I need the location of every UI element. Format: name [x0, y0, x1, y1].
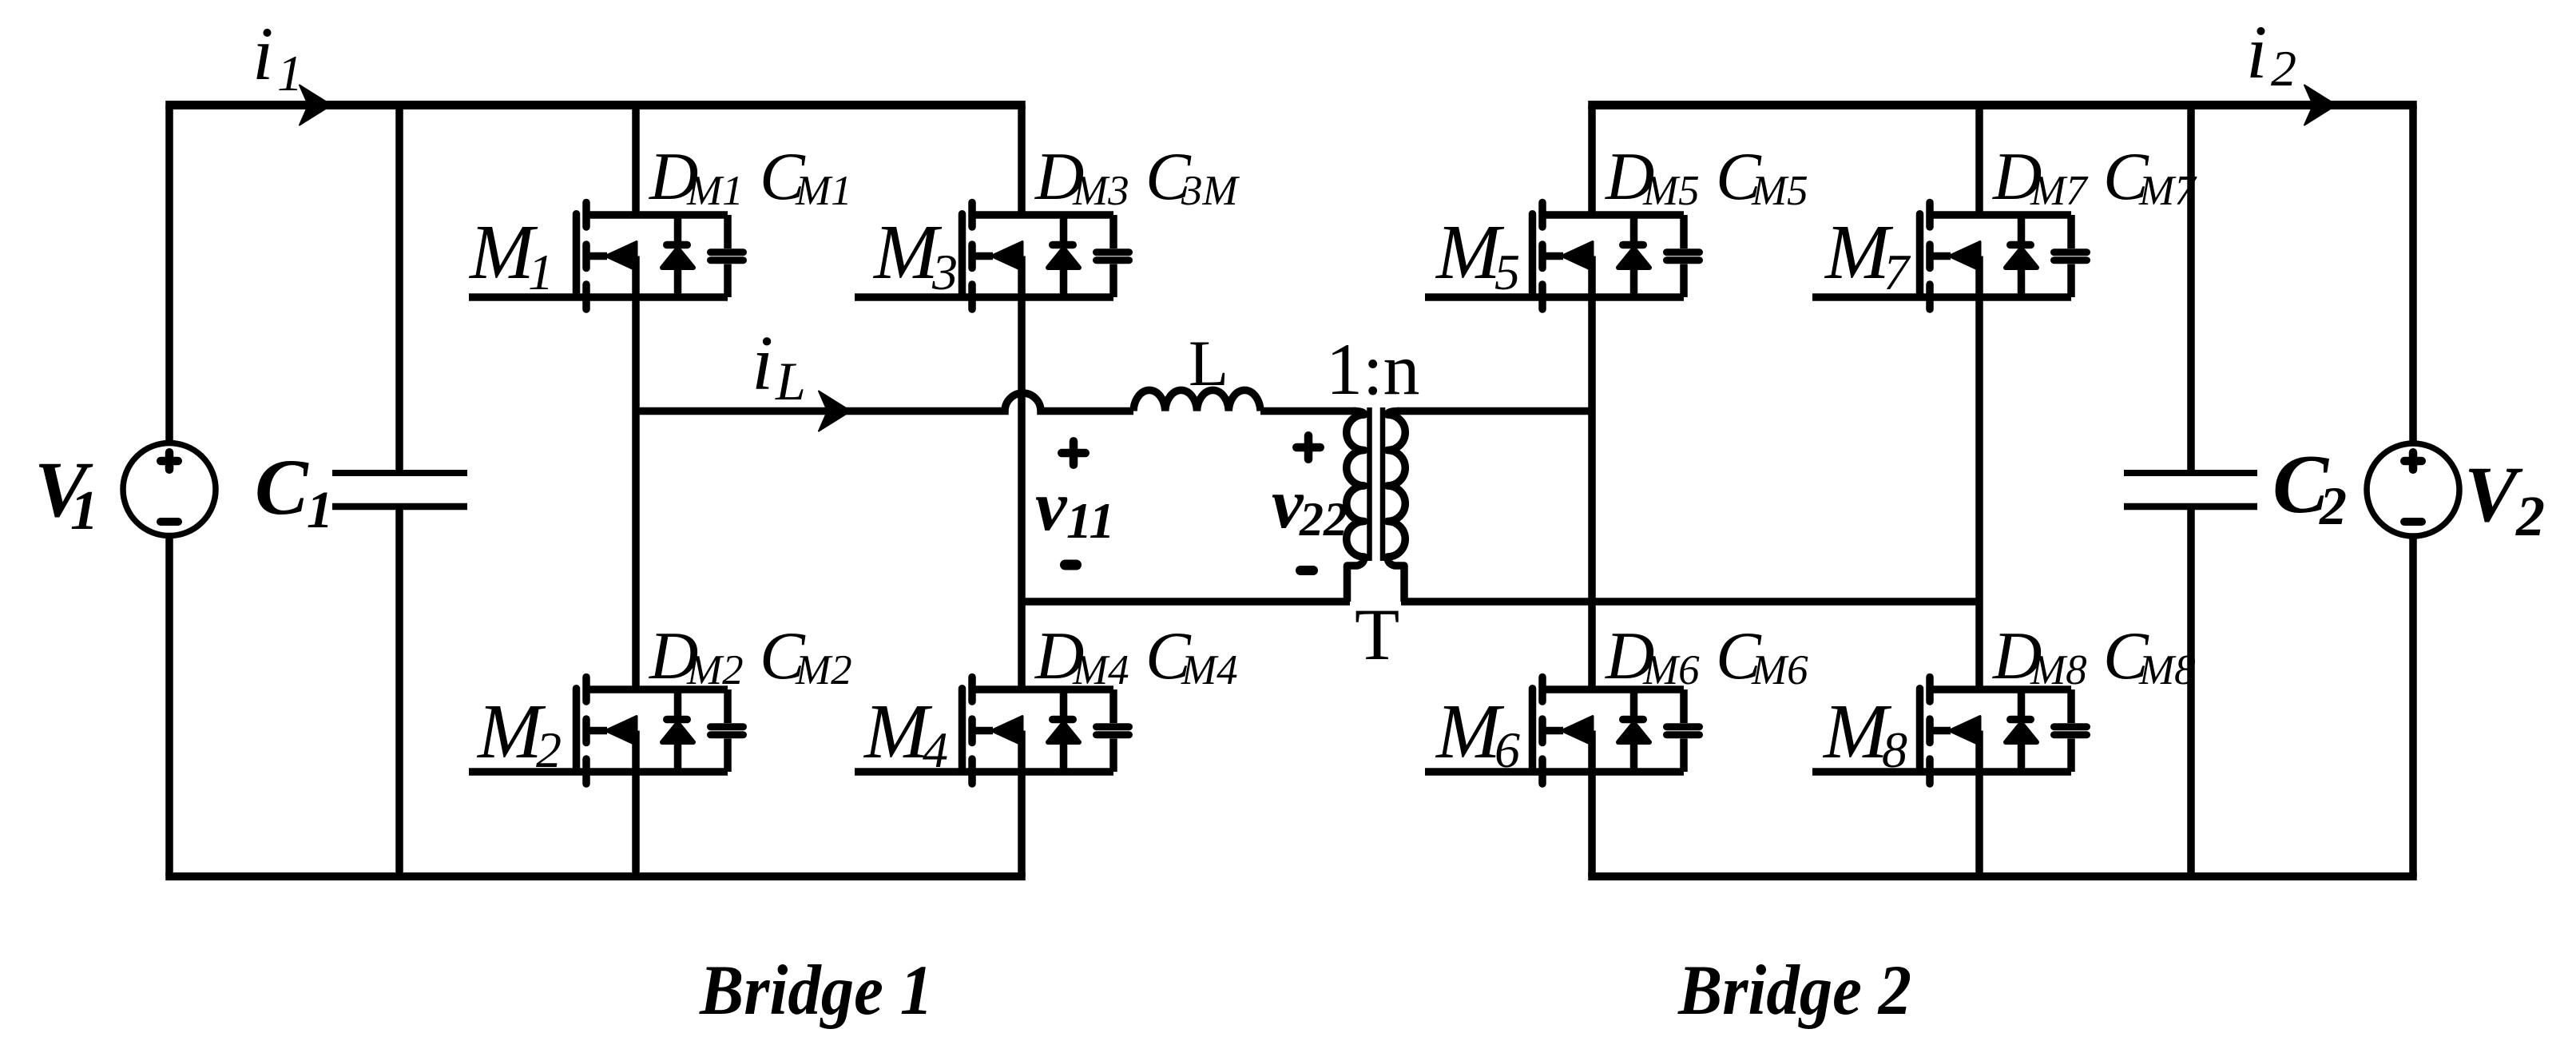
svg-text:M5: M5: [1751, 168, 1808, 214]
svg-text:Bridge 1: Bridge 1: [699, 952, 933, 1030]
svg-text:M2: M2: [686, 647, 744, 693]
svg-text:5: 5: [1494, 244, 1520, 300]
svg-text:L: L: [1189, 327, 1228, 399]
wire: bridge 2 bottom rail: [1588, 872, 2417, 880]
polarity - of v11: [1066, 560, 1077, 570]
current arrow i1: [300, 85, 331, 125]
svg-text:3M: 3M: [1181, 168, 1240, 214]
svg-text:1: 1: [70, 480, 98, 542]
svg-text:8: 8: [1882, 721, 1907, 778]
wire: leg B x=1279: [1018, 105, 1026, 216]
transistor M4: [855, 677, 1113, 785]
voltage source V2: [2409, 105, 2417, 444]
body diode DM1: [662, 215, 693, 297]
body diode DM6: [1618, 689, 1649, 772]
polarity + of v11: [1062, 449, 1086, 458]
transformer T secondary winding: [1387, 411, 1405, 602]
body diode DM5: [1618, 215, 1649, 297]
svg-text:3: 3: [931, 244, 958, 300]
svg-text:11: 11: [1066, 492, 1114, 549]
snubber capacitor C3M: [1097, 215, 1129, 297]
snubber capacitor CM2: [711, 689, 744, 772]
svg-text:2: 2: [536, 721, 562, 778]
wire: leg C x=1993: [1588, 105, 1596, 216]
transistor M2: [469, 677, 728, 785]
svg-text:1: 1: [277, 45, 303, 101]
svg-text:i: i: [252, 11, 273, 96]
svg-text:M6: M6: [1642, 647, 1700, 693]
polarity + of v22: [1296, 443, 1320, 452]
svg-text:M4: M4: [1181, 647, 1238, 693]
current arrow i2: [2304, 85, 2336, 125]
svg-text:M2: M2: [795, 647, 852, 693]
svg-text:T: T: [1355, 594, 1399, 675]
svg-text:i: i: [752, 320, 773, 407]
svg-text:2: 2: [2271, 40, 2296, 97]
inductor L: [1133, 390, 1260, 411]
body diode DM7: [2006, 215, 2037, 297]
wire: secondary bottom to leg D: [1401, 598, 1979, 606]
capacitor C2: [2187, 105, 2195, 474]
svg-text:M3: M3: [1072, 168, 1129, 214]
body diode DM3: [1048, 215, 1079, 297]
svg-text:M8: M8: [2030, 647, 2087, 693]
snubber capacitor CM5: [1667, 215, 1700, 297]
wire: leg D x=2478: [1975, 105, 1983, 216]
snubber capacitor CM6: [1667, 689, 1700, 772]
transformer core: [1367, 407, 1372, 561]
svg-text:M1: M1: [795, 168, 852, 214]
svg-text:L: L: [775, 351, 806, 411]
svg-text:M5: M5: [1642, 168, 1700, 214]
wire: primary bottom return to leg B: [1022, 598, 1350, 606]
svg-text:Bridge 2: Bridge 2: [1677, 952, 1911, 1030]
svg-text:M7: M7: [2030, 168, 2089, 214]
capacitor C1: [395, 105, 403, 471]
body diode DM2: [662, 689, 693, 772]
svg-text:M1: M1: [686, 168, 744, 214]
wire: leg A x=796: [632, 105, 640, 216]
transformer T primary winding: [1347, 411, 1364, 602]
svg-text:4: 4: [923, 721, 948, 778]
polarity - of v22: [1300, 566, 1313, 575]
svg-text:2: 2: [2319, 475, 2347, 536]
transistor M6: [1425, 677, 1684, 785]
snubber capacitor CM4: [1097, 689, 1129, 772]
svg-text:M8: M8: [2138, 647, 2196, 693]
wire: inductor to transformer: [1260, 407, 1356, 415]
voltage source V1: [165, 105, 173, 441]
body diode DM8: [2006, 689, 2037, 772]
body diode DM4: [1048, 689, 1079, 772]
svg-text:M4: M4: [1072, 647, 1129, 693]
wire: bridge 2 top rail: [1588, 101, 2417, 109]
transistor M1: [469, 203, 728, 310]
wire: bridge 1 bottom rail: [165, 872, 1026, 880]
svg-text:7: 7: [1883, 244, 1911, 300]
svg-text:6: 6: [1494, 721, 1520, 778]
snubber capacitor CM7: [2054, 215, 2087, 297]
svg-text:M6: M6: [1751, 647, 1808, 693]
svg-text:v: v: [1035, 467, 1068, 546]
wire: iL with crossover hop: [636, 393, 1133, 411]
transistor M5: [1425, 203, 1684, 310]
wire: secondary top to leg C: [1397, 407, 1592, 415]
svg-text:C: C: [255, 443, 309, 531]
transistor M3: [855, 203, 1113, 310]
wire: bridge 1 top rail: [165, 101, 1026, 109]
current arrow iL: [819, 391, 851, 431]
snubber capacitor CM1: [711, 215, 744, 297]
transistor M7: [1812, 203, 2071, 310]
transistor M8: [1812, 677, 2071, 785]
svg-text:V: V: [2464, 450, 2523, 538]
svg-text:1:n: 1:n: [1326, 328, 1420, 410]
svg-text:1: 1: [307, 481, 333, 539]
svg-text:1: 1: [528, 244, 554, 300]
snubber capacitor CM8: [2054, 689, 2087, 772]
svg-text:22: 22: [1299, 493, 1348, 546]
svg-text:2: 2: [2515, 484, 2545, 548]
svg-text:i: i: [2246, 10, 2267, 94]
